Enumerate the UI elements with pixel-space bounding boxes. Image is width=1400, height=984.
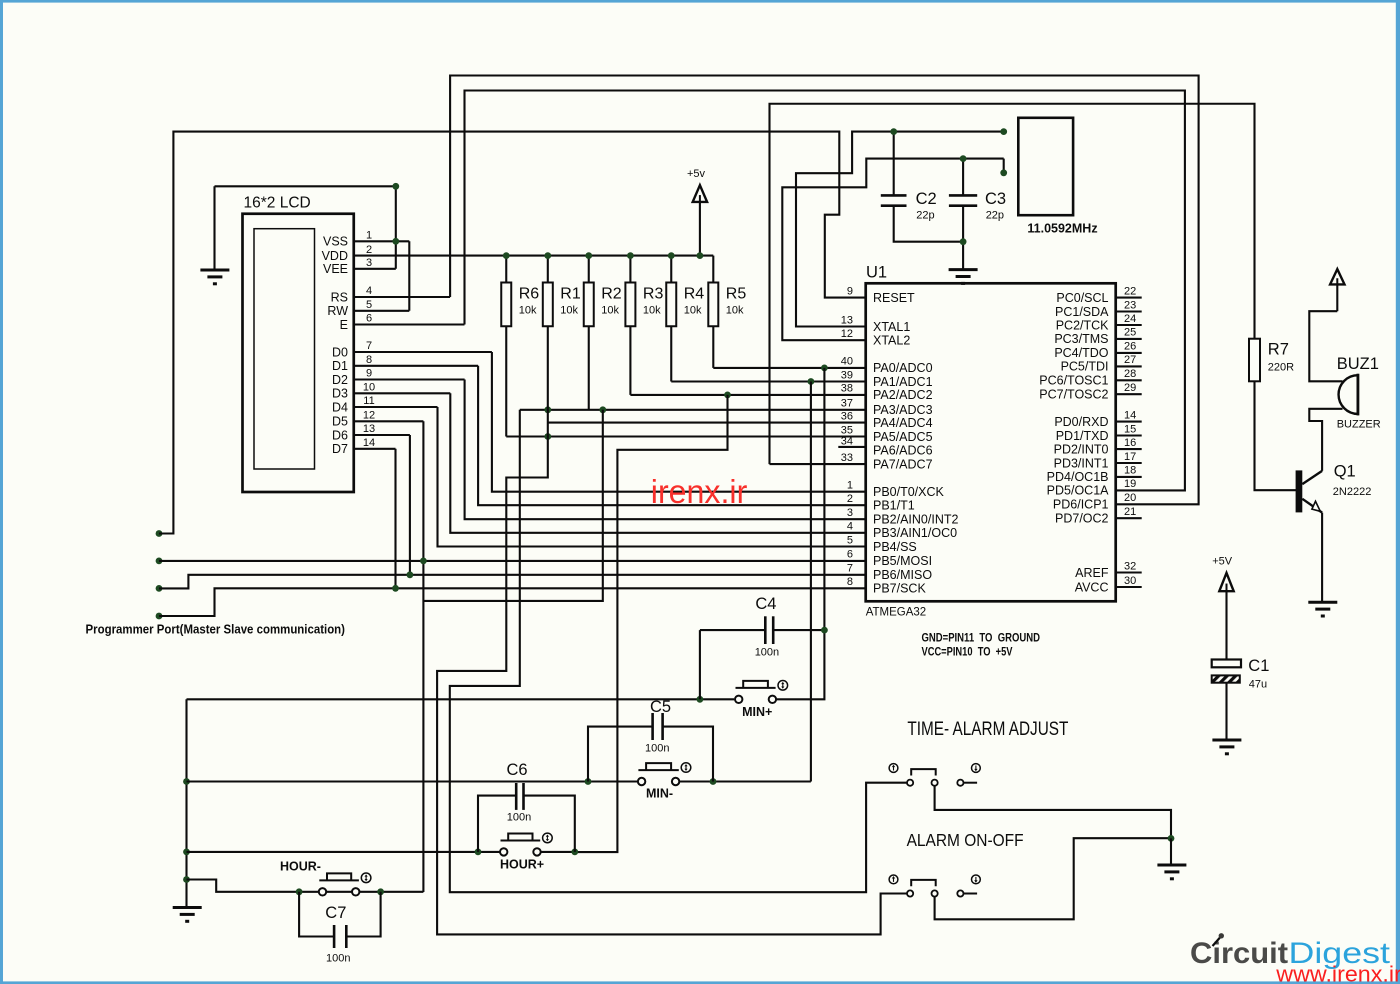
- junction C6 right: [571, 849, 578, 856]
- svg-text:PD5/OC1A: PD5/OC1A: [1047, 484, 1109, 498]
- U1 pin 35 PA5/ADC5: [841, 424, 933, 444]
- switch SW2 up icon: [889, 875, 898, 884]
- resistor R6 10k: [501, 256, 539, 327]
- capacitor C2 22p: [881, 132, 963, 242]
- svg-text:15: 15: [1124, 423, 1136, 435]
- resistor R4 10k: [666, 256, 704, 327]
- junction C2 top: [890, 128, 897, 135]
- resistor R5 10k: [708, 256, 746, 327]
- LCD pin 1 VSS stub: [323, 230, 409, 249]
- svg-text:1: 1: [366, 230, 372, 242]
- wire net R7 top (PA7 to R7): [770, 104, 1255, 464]
- LCD pin 5 RW stub: [327, 299, 409, 318]
- svg-text:HOUR-: HOUR-: [280, 860, 321, 874]
- svg-text:12: 12: [363, 410, 375, 422]
- svg-text:29: 29: [1124, 382, 1136, 394]
- svg-text:PA4/ADC4: PA4/ADC4: [873, 416, 933, 430]
- U1 pin 22 PC0/SCL: [1056, 285, 1141, 305]
- svg-text:D3: D3: [332, 387, 348, 401]
- label ALARM ON-OFF: [907, 830, 1024, 850]
- wire LCD VSS-VEE to ground: [215, 186, 396, 268]
- U1 pin 27 PC5/TDI: [1061, 354, 1142, 374]
- U1 pin 26 PC4/TDO: [1054, 341, 1141, 361]
- junction D6 on PB6 row: [407, 571, 414, 578]
- LCD inner screen rectangle: [254, 229, 315, 469]
- pushbutton MIN-: [638, 763, 691, 801]
- wire D6 riser: [409, 435, 411, 575]
- svg-text:www.irenx.ir: www.irenx.ir: [1275, 961, 1400, 984]
- svg-text:PA0/ADC0: PA0/ADC0: [873, 361, 933, 375]
- svg-text:10: 10: [363, 382, 375, 394]
- U1 pin 13 XTAL1: [841, 314, 911, 334]
- U1 pin 5 PB4/SS: [847, 534, 917, 554]
- svg-text:27: 27: [1124, 354, 1136, 366]
- LCD pin 10 D3 stub: [332, 382, 450, 401]
- svg-text:AVCC: AVCC: [1075, 580, 1109, 594]
- junction switch ground node: [1168, 835, 1175, 842]
- svg-text:22: 22: [1124, 285, 1136, 297]
- capacitor C6 100n: [478, 761, 575, 852]
- wire HOUR- jog from rail: [187, 880, 424, 892]
- U1 pin 40 PA0/ADC0: [841, 356, 933, 376]
- svg-text:19: 19: [1124, 478, 1136, 490]
- junction PA2 branch: [724, 392, 731, 399]
- transistor Q1 2N2222: [1296, 463, 1372, 513]
- U1 pin 9 RESET: [847, 285, 915, 305]
- capacitor C5 100n: [588, 698, 713, 782]
- svg-text:U1: U1: [866, 264, 887, 282]
- wire net PA5 row (R6 to U1 pin35): [506, 326, 865, 436]
- ground below C1: [1212, 740, 1241, 754]
- svg-text:9: 9: [366, 368, 372, 380]
- wire net PA4 row (to U1 pin36): [548, 422, 866, 424]
- svg-text:11.0592MHz: 11.0592MHz: [1027, 222, 1097, 236]
- U1 pin 7 PB6/MISO: [847, 563, 932, 583]
- wire buzzer positive lead: [1309, 311, 1342, 381]
- junction PA0 riser: [821, 365, 828, 372]
- svg-text:BUZ1: BUZ1: [1337, 355, 1379, 373]
- LCD pin 9 D2 stub: [332, 368, 465, 387]
- svg-text:irenx.ir: irenx.ir: [651, 473, 748, 510]
- wire D5 riser to PB5 row and HOUR- row: [422, 421, 424, 892]
- LCD pin 12 D5 stub: [332, 410, 423, 429]
- svg-text:36: 36: [841, 410, 853, 422]
- wire switch ground drop: [1170, 838, 1172, 864]
- svg-text:VEE: VEE: [323, 262, 348, 276]
- svg-text:5: 5: [366, 299, 372, 311]
- switch SW1 up icon: [889, 764, 898, 773]
- pushbutton MIN+: [735, 681, 788, 719]
- junction D5 on PB5 row: [420, 558, 427, 565]
- svg-text:17: 17: [1124, 451, 1136, 463]
- LCD pin 3 VEE stub: [323, 257, 396, 276]
- wire SW2 pole to ground: [935, 838, 1171, 919]
- wire net PB6/MISO row: [159, 575, 866, 589]
- U1 pin 16 PD2/INT0: [1054, 437, 1142, 457]
- +5V power arrow at C1: [1219, 573, 1233, 660]
- wire C1 to ground: [1225, 683, 1227, 740]
- LCD pin 7 D0 stub: [332, 340, 492, 359]
- switch SW1 down icon: [972, 764, 981, 773]
- ground below Q1: [1308, 602, 1337, 616]
- label Programmer Port: [86, 623, 346, 637]
- svg-text:R4: R4: [684, 286, 705, 303]
- wire net PB7/SCK row: [159, 588, 866, 616]
- note VCC=PIN10: [922, 647, 1013, 659]
- U1 pin 33 PA7/ADC7: [841, 452, 933, 472]
- ground below switches: [1157, 865, 1186, 879]
- junction rail MIN- row: [183, 778, 190, 785]
- svg-text:PA1/ADC1: PA1/ADC1: [873, 375, 933, 389]
- svg-text:30: 30: [1124, 575, 1136, 587]
- svg-text:PB3/AIN1/OC0: PB3/AIN1/OC0: [873, 526, 957, 540]
- svg-text:220R: 220R: [1268, 362, 1294, 374]
- U1 pin 14 PD0/RXD: [1054, 409, 1141, 429]
- svg-text:47u: 47u: [1249, 679, 1267, 691]
- resistor R3 10k: [625, 256, 663, 327]
- U1 pin 32 AREF: [1075, 560, 1142, 580]
- watermark irenx.ir: [651, 473, 748, 510]
- svg-text:PB1/T1: PB1/T1: [873, 499, 915, 513]
- svg-text:6: 6: [366, 313, 372, 325]
- crystal X1 11.0592MHz body: [1018, 118, 1073, 215]
- junction VSS-VEE riser corner: [392, 183, 399, 190]
- junction C2-C3 bottom: [960, 238, 967, 245]
- wire MIN- row west: [187, 780, 638, 782]
- switch SW1 time adjust: [907, 769, 977, 786]
- svg-text:D4: D4: [332, 400, 348, 414]
- label TIME- ALARM ADJUST: [907, 719, 1068, 740]
- svg-text:PC5/TDI: PC5/TDI: [1061, 360, 1109, 374]
- wire net PA7 row (R7 line to U1 pin33): [770, 463, 866, 465]
- svg-text:RESET: RESET: [873, 291, 915, 305]
- svg-text:14: 14: [363, 437, 375, 449]
- svg-text:ATMEGA32: ATMEGA32: [866, 607, 927, 619]
- wire buzzer negative lead to collector: [1309, 409, 1342, 471]
- svg-text:RS: RS: [331, 290, 348, 304]
- svg-text:PC2/TCK: PC2/TCK: [1056, 318, 1109, 332]
- svg-text:2N2222: 2N2222: [1333, 486, 1372, 498]
- U1 pin 3 PB2/AIN0/INT2: [847, 507, 959, 527]
- logo CircuitDigest: [1190, 933, 1391, 970]
- U1 pin 37 PA3/ADC3: [841, 398, 933, 418]
- svg-text:10k: 10k: [560, 305, 578, 317]
- svg-text:VSS: VSS: [323, 235, 348, 249]
- svg-text:5: 5: [847, 534, 853, 546]
- svg-text:PC6/TOSC1: PC6/TOSC1: [1039, 374, 1108, 388]
- U1 pin 18 PD4/OC1B: [1047, 465, 1142, 485]
- svg-text:PA2/ADC2: PA2/ADC2: [873, 388, 933, 402]
- svg-text:23: 23: [1124, 299, 1136, 311]
- svg-text:HOUR+: HOUR+: [500, 858, 544, 872]
- wire net XTAL1 (U1 pin13 to crystal): [796, 132, 1004, 327]
- wire net PA0 (R5 to U1 pin40): [713, 326, 865, 368]
- wire R2 lower lead: [588, 326, 590, 410]
- svg-text:AREF: AREF: [1075, 566, 1109, 580]
- svg-text:MIN+: MIN+: [742, 705, 772, 719]
- svg-text:4: 4: [366, 285, 372, 297]
- svg-text:14: 14: [1124, 409, 1136, 421]
- node programmer RESET: [156, 530, 163, 537]
- svg-text:PD6/ICP1: PD6/ICP1: [1053, 498, 1109, 512]
- svg-text:9: 9: [847, 285, 853, 297]
- svg-text:PB6/MISO: PB6/MISO: [873, 568, 932, 582]
- svg-text:C5: C5: [650, 698, 671, 716]
- svg-text:C2: C2: [916, 190, 937, 208]
- svg-text:PA5/ADC5: PA5/ADC5: [873, 430, 933, 444]
- wire net D1-PB1: [478, 366, 866, 505]
- note GND=PIN11: [922, 633, 1041, 645]
- wire MIN+ row east to C4: [776, 630, 824, 699]
- svg-text:PB7/SCK: PB7/SCK: [873, 582, 926, 596]
- junction on VDD rail: [627, 252, 634, 259]
- svg-text:TIME- ALARM ADJUST: TIME- ALARM ADJUST: [907, 719, 1068, 740]
- svg-text:2: 2: [847, 493, 853, 505]
- U1 pin 1 PB0/T0/XCK: [847, 480, 945, 500]
- label ATMEGA32: [866, 607, 927, 619]
- wire PA0 riser to C4: [823, 368, 825, 630]
- wire net RS (LCD RS to U1 PD6): [450, 76, 1199, 505]
- svg-text:PD1/TXD: PD1/TXD: [1056, 429, 1109, 443]
- IC U1 ATMEGA32 body: [866, 283, 1116, 601]
- svg-text:22p: 22p: [916, 210, 934, 222]
- svg-text:+5V: +5V: [1212, 555, 1233, 567]
- wire R1 chain to ALARM switch: [437, 326, 907, 934]
- svg-text:8: 8: [847, 576, 853, 588]
- capacitor C1 47u polarized: [1212, 657, 1270, 690]
- U1 pin 17 PD3/INT1: [1054, 451, 1142, 471]
- svg-text:28: 28: [1124, 368, 1136, 380]
- capacitor C3 22p: [949, 159, 1006, 270]
- svg-text:20: 20: [1124, 492, 1136, 504]
- U1 pin 39 PA1/ADC1: [841, 369, 933, 389]
- svg-text:13: 13: [841, 314, 853, 326]
- U1 pin 34 PA6/ADC6: [838, 436, 932, 458]
- wire net RESET (programmer to U1 pin9): [159, 132, 866, 534]
- svg-text:XTAL2: XTAL2: [873, 334, 910, 348]
- node crystal pin 2: [1000, 169, 1007, 176]
- svg-text:1: 1: [847, 480, 853, 492]
- ground below C3: [949, 270, 978, 284]
- U1 pin 19 PD5/OC1A: [1047, 478, 1137, 498]
- svg-text:10k: 10k: [684, 305, 702, 317]
- junction R1 chain on PA5 row: [544, 433, 551, 440]
- svg-text:D1: D1: [332, 359, 348, 373]
- junction rail HOUR+ row: [183, 849, 190, 856]
- svg-text:R5: R5: [726, 286, 747, 303]
- svg-text:R6: R6: [519, 286, 540, 303]
- junction on VDD rail: [585, 252, 592, 259]
- svg-text:6: 6: [847, 549, 853, 561]
- svg-text:25: 25: [1124, 327, 1136, 339]
- wire MIN- row east: [679, 780, 713, 782]
- U1 pin 30 AVCC: [1075, 575, 1142, 595]
- wire D7 riser: [394, 449, 396, 589]
- svg-text:32: 32: [1124, 560, 1136, 572]
- junction on VDD rail: [544, 252, 551, 259]
- svg-text:BUZZER: BUZZER: [1337, 419, 1381, 431]
- resistor R7 220R: [1249, 339, 1294, 382]
- svg-text:13: 13: [363, 423, 375, 435]
- svg-text:33: 33: [841, 452, 853, 464]
- node programmer SCK: [156, 613, 163, 620]
- junction on VSS pin: [392, 238, 399, 245]
- LCD pin 2 VDD stub: [322, 244, 372, 263]
- svg-text:C4: C4: [755, 595, 776, 613]
- wire net E (LCD E to U1 PD5): [465, 91, 1185, 491]
- junction C5 left: [585, 778, 592, 785]
- svg-text:D2: D2: [332, 373, 348, 387]
- svg-text:PB4/SS: PB4/SS: [873, 540, 917, 554]
- wire R7 to Q1 base: [1255, 381, 1297, 490]
- U1 pin 38 PA2/ADC2: [841, 383, 933, 403]
- wire net PB5/MOSI row: [159, 560, 866, 562]
- junction C5 right: [710, 778, 717, 785]
- pushbutton HOUR+: [500, 833, 552, 871]
- capacitor C7 100n: [299, 892, 381, 965]
- svg-text:38: 38: [841, 383, 853, 395]
- junction R1 on PA3 row: [544, 406, 551, 413]
- ground left rail: [173, 908, 202, 922]
- resistor R1 10k: [543, 256, 581, 327]
- U1 pin 20 PD6/ICP1: [1053, 492, 1136, 512]
- junction +5v on VDD rail: [697, 252, 704, 259]
- capacitor C4 100n: [700, 595, 825, 658]
- node programmer MISO: [156, 585, 163, 592]
- wire PA3 branch to D5 riser: [423, 410, 602, 601]
- svg-text:100n: 100n: [645, 742, 669, 754]
- svg-text:PB5/MOSI: PB5/MOSI: [873, 554, 932, 568]
- svg-text:VDD: VDD: [322, 249, 348, 263]
- svg-text:39: 39: [841, 369, 853, 381]
- svg-text:E: E: [340, 318, 348, 332]
- U1 pin 8 PB7/SCK: [847, 576, 927, 596]
- svg-text:4: 4: [847, 521, 853, 533]
- svg-text:3: 3: [847, 507, 853, 519]
- wire net XTAL2 (U1 pin12 to crystal): [782, 159, 1003, 341]
- svg-text:D5: D5: [332, 415, 348, 429]
- svg-text:R2: R2: [601, 286, 622, 303]
- watermark www.irenx.ir: [1275, 961, 1400, 984]
- wire net PA2 (R3 to U1 pin38): [630, 326, 865, 395]
- svg-text:7: 7: [847, 563, 853, 575]
- junction PA3 branch: [599, 406, 606, 413]
- svg-text:100n: 100n: [755, 646, 779, 658]
- svg-text:D7: D7: [332, 442, 348, 456]
- junction C4 left lead: [697, 696, 704, 703]
- svg-text:2: 2: [366, 244, 372, 256]
- U1 pin 2 PB1/T1: [847, 493, 915, 513]
- svg-text:PC0/SCL: PC0/SCL: [1056, 291, 1108, 305]
- svg-text:PD3/INT1: PD3/INT1: [1054, 456, 1109, 470]
- label +5V: [1212, 555, 1233, 567]
- svg-text:12: 12: [841, 328, 853, 340]
- svg-text:3: 3: [366, 257, 372, 269]
- U1 pin 12 XTAL2: [841, 328, 911, 348]
- svg-text:35: 35: [841, 424, 853, 436]
- svg-text:PD4/OC1B: PD4/OC1B: [1047, 470, 1109, 484]
- svg-text:ALARM ON-OFF: ALARM ON-OFF: [907, 830, 1024, 850]
- junction on VDD rail: [668, 252, 675, 259]
- svg-text:10k: 10k: [726, 305, 744, 317]
- svg-text:R3: R3: [643, 286, 664, 303]
- wire MIN+ row west: [187, 698, 735, 700]
- wire PA3-corner chain to TIME switch: [450, 410, 907, 892]
- svg-text:MIN-: MIN-: [646, 787, 673, 801]
- U1 pin 23 PC1/SDA: [1055, 299, 1142, 319]
- wire net PA1 (R4 to U1 pin39): [671, 326, 865, 381]
- label U1: [866, 264, 887, 282]
- svg-text:C6: C6: [507, 761, 528, 779]
- junction C4 right on PA0 riser: [821, 627, 828, 634]
- LCD pin 6 E stub: [340, 313, 465, 332]
- svg-text:100n: 100n: [326, 953, 350, 965]
- svg-text:16*2 LCD: 16*2 LCD: [244, 195, 311, 212]
- svg-text:D6: D6: [332, 428, 348, 442]
- U1 pin 25 PC3/TMS: [1054, 327, 1141, 347]
- svg-text:PC4/TDO: PC4/TDO: [1054, 346, 1108, 360]
- svg-text:Programmer Port(Master Slave c: Programmer Port(Master Slave communicati…: [86, 623, 346, 637]
- svg-text:PB0/T0/XCK: PB0/T0/XCK: [873, 485, 945, 499]
- svg-text:40: 40: [841, 356, 853, 368]
- node programmer MOSI: [156, 558, 163, 565]
- label 16*2 LCD: [244, 195, 311, 212]
- svg-text:24: 24: [1124, 313, 1136, 325]
- svg-text:10k: 10k: [519, 305, 537, 317]
- svg-text:PC7/TOSC2: PC7/TOSC2: [1039, 388, 1108, 402]
- junction PA1 riser: [808, 378, 815, 385]
- svg-text:22p: 22p: [986, 210, 1004, 222]
- svg-text:PA7/ADC7: PA7/ADC7: [873, 457, 933, 471]
- switch SW2 alarm on-off: [907, 880, 977, 897]
- switch SW2 down icon: [972, 875, 981, 884]
- svg-text:C1: C1: [1248, 657, 1269, 675]
- wire net D4-PB4: [438, 407, 866, 547]
- svg-text:16: 16: [1124, 437, 1136, 449]
- wire SW1 pole to ground: [935, 786, 1171, 839]
- svg-text:PC1/SDA: PC1/SDA: [1055, 305, 1109, 319]
- svg-text:PD0/RXD: PD0/RXD: [1054, 415, 1108, 429]
- LCD pin 13 D6 stub: [332, 423, 410, 442]
- svg-text:8: 8: [366, 354, 372, 366]
- wire net D2-PB2: [465, 380, 866, 520]
- svg-text:11: 11: [363, 395, 374, 407]
- svg-text:C3: C3: [985, 190, 1006, 208]
- svg-text:D0: D0: [332, 345, 348, 359]
- LCD pin 4 RS stub: [331, 285, 450, 304]
- junction C6 left: [475, 849, 482, 856]
- pushbutton HOUR-: [280, 860, 371, 896]
- node crystal pin 1: [1000, 128, 1007, 135]
- svg-text:PD2/INT0: PD2/INT0: [1054, 442, 1109, 456]
- U1 pin 21 PD7/OC2: [1055, 506, 1142, 526]
- wire HOUR+ row west: [187, 851, 501, 853]
- label 11.0592MHz: [1027, 222, 1097, 236]
- svg-text:RW: RW: [327, 304, 348, 318]
- junction D7 on PB7 row: [392, 585, 399, 592]
- svg-text:C7: C7: [325, 904, 346, 922]
- wire Q1 emitter to ground: [1321, 513, 1323, 602]
- LCD pin 11 D4 stub: [332, 395, 437, 414]
- U1 pin 28 PC6/TOSC1: [1039, 368, 1141, 388]
- LCD pin 8 D1 stub: [332, 354, 478, 373]
- ground near LCD: [200, 186, 229, 283]
- VDD rail wire: [354, 255, 714, 257]
- svg-text:PA6/ADC6: PA6/ADC6: [873, 444, 933, 458]
- svg-text:Circuit: Circuit: [1190, 937, 1288, 970]
- wire net D3-PB3: [450, 393, 865, 533]
- svg-text:+5v: +5v: [687, 168, 706, 180]
